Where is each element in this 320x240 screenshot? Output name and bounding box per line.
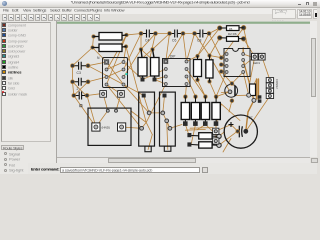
pad TP1 (247, 93, 251, 97)
wire U1 cross diagonals (107, 62, 124, 85)
wire (215, 125, 217, 142)
wire U3 left down (216, 72, 227, 97)
wire (107, 85, 122, 94)
wire thick U3 feed (242, 48, 244, 54)
red dot in solder mask swatch (2, 91, 4, 93)
wire under C7 (223, 139, 231, 153)
wire C2 right cross (74, 82, 88, 96)
wire C2 cross down (73, 82, 87, 96)
wire C4 left to R7 top (140, 34, 142, 50)
svg-text:DIP: DIP (170, 55, 175, 59)
wire (219, 131, 238, 145)
capacitor C3 (71, 62, 91, 75)
wire U1 to trimpot (107, 85, 142, 129)
wire (210, 56, 222, 58)
trimpot VR2 (160, 92, 176, 151)
wire (124, 85, 150, 113)
wire (107, 62, 124, 70)
wire (155, 77, 166, 80)
wire (96, 111, 108, 127)
capacitor C1 (72, 92, 89, 100)
wire R9 to row (198, 80, 206, 97)
connector D1 pads (252, 53, 266, 65)
window title bar (0, 0, 320, 8)
wire R7/R8 tops (141, 49, 150, 57)
toolbar (0, 14, 110, 21)
svg-text:LED1: LED1 (253, 61, 260, 65)
capacitor C8 (193, 30, 212, 43)
menu bar (0, 8, 320, 14)
window controls (298, 4, 302, 5)
wire (74, 96, 96, 128)
wire (167, 121, 168, 150)
wire R4 right down (107, 35, 127, 70)
wire R6b right down (244, 39, 255, 57)
wire R7 bottom to U2 (143, 69, 166, 80)
wire C8 left to U2 (187, 34, 195, 62)
pad TP2 (252, 98, 256, 102)
wire C1 to sq pads (87, 94, 100, 96)
wire C4 right to R7 (141, 34, 156, 50)
wire (88, 66, 124, 85)
resistor R18 vertical (250, 84, 262, 103)
resistor R5 (91, 44, 128, 52)
transistor Q1 (225, 82, 238, 103)
wire (205, 125, 212, 132)
wire trimpots to row (170, 125, 182, 129)
wire (124, 62, 143, 80)
wire long rat top to bottom (126, 47, 146, 123)
wire (221, 72, 232, 84)
wire (187, 56, 198, 62)
module VK3HND (80, 105, 131, 146)
capacitor C4 (139, 30, 158, 43)
resistor R16 horizontal (187, 133, 221, 139)
wire C3 right to U1 (88, 62, 107, 66)
wire (124, 49, 142, 77)
wire C6 left down (166, 34, 170, 62)
svg-text:N: N (97, 56, 100, 60)
wire hres right pads to C7 (219, 132, 225, 137)
wire C8 right down (198, 34, 210, 57)
wire (107, 35, 127, 85)
board edge strip (57, 22, 310, 24)
svg-text:D2 R6: D2 R6 (228, 32, 237, 36)
wire (250, 57, 255, 84)
resistor R9 vertical (194, 54, 202, 82)
svg-text:CONN2: CONN2 (275, 79, 279, 89)
wire Q1 to TP (236, 94, 249, 96)
wire U3 pads left (221, 65, 226, 66)
wire module to trimpot (122, 127, 142, 128)
resistor R17 horizontal (187, 142, 221, 148)
wire C2 right to U1 (88, 77, 107, 82)
wire U2 right to resistor row (185, 84, 186, 97)
wire (221, 28, 243, 58)
wire (197, 125, 205, 130)
wire (116, 94, 121, 111)
resistor row R11-R15 (181, 95, 220, 126)
wire (124, 85, 144, 96)
wire pad to C7 (246, 100, 254, 131)
wire (232, 72, 243, 84)
wire (183, 33, 195, 35)
top-right coordinate readout (272, 9, 296, 19)
capacitor C6 (168, 30, 186, 43)
wire extra links (156, 33, 170, 35)
wire (187, 69, 206, 97)
svg-text:(HND): (HND) (102, 125, 111, 129)
op-amp U1 (97, 56, 128, 88)
left panel (0, 21, 57, 174)
wire C4 left to U1 (124, 34, 142, 70)
wire U2 long to Q1 (210, 56, 231, 92)
svg-text:C3: C3 (77, 71, 81, 75)
horizontal scrollbar (57, 157, 310, 163)
wire (243, 60, 254, 100)
svg-text:C8: C8 (197, 39, 201, 43)
wire C3-C2-C1 left chain (73, 66, 74, 96)
wire (107, 70, 124, 78)
app icon (2, 1, 7, 6)
wire trimpot zigzag (131, 111, 152, 135)
wire module top pads up (103, 94, 108, 111)
wire (163, 96, 165, 113)
svg-text:C6: C6 (172, 39, 176, 43)
wire big diagonal to C7 (216, 104, 240, 125)
wire (229, 101, 232, 112)
wire R10 down (210, 82, 217, 97)
capacitor C2 (71, 78, 91, 91)
resistor R10 vertical (206, 54, 213, 84)
connector J2 (213, 128, 219, 144)
wire resistor row bottoms (185, 125, 189, 135)
trimpot VR1 (139, 92, 155, 152)
wire C4 right down (150, 34, 156, 58)
wire (167, 121, 170, 129)
wire (148, 135, 152, 150)
wire (187, 77, 196, 97)
wire C7 left pads (216, 125, 238, 132)
wire (243, 57, 255, 66)
svg-text:R6: R6 (229, 27, 233, 31)
svg-text:C4: C4 (145, 39, 149, 43)
connector CONN3 (266, 78, 279, 99)
wire C8 right to R6 (209, 28, 220, 34)
wire (163, 113, 170, 128)
wire (190, 127, 213, 130)
wire R8 bottom (155, 77, 166, 80)
wire R5 to C3 (73, 48, 93, 66)
wire R6b left down (210, 38, 220, 56)
svg-text:C7: C7 (249, 116, 253, 120)
vertical scrollbar (310, 21, 317, 157)
capacitor C7 electrolytic (224, 115, 257, 148)
wire (195, 34, 210, 56)
canvas (57, 21, 310, 157)
wire (142, 122, 147, 128)
resistor R6a top-right (217, 25, 246, 30)
wire (185, 128, 205, 131)
wire C6 right to U2 (166, 34, 183, 62)
resistor R6b (217, 32, 246, 41)
resistor R8 vertical (151, 48, 160, 82)
resistor R7 vertical (138, 48, 147, 82)
resistor R4 (92, 33, 129, 41)
wire (209, 34, 221, 58)
wire (149, 112, 163, 114)
wire (249, 79, 257, 95)
wire (183, 34, 187, 62)
right margin (317, 8, 320, 174)
wire conn3 thick (256, 79, 258, 99)
wire R6a right down (244, 28, 248, 49)
svg-text:2: 2 (77, 87, 79, 91)
wire R8 bottom to U2 pin (155, 80, 166, 85)
wire (146, 84, 166, 122)
wire R5 right down (124, 47, 127, 63)
wire (257, 79, 259, 99)
wire (127, 34, 142, 36)
wire C7 to conn3 (246, 96, 270, 131)
node cyan highlight (125, 73, 127, 75)
wire LED down (262, 57, 270, 80)
status bar (28, 163, 320, 174)
wire (191, 125, 195, 145)
wire U3 right to LED (243, 54, 251, 57)
wire Q1 pads (221, 91, 230, 94)
pads header left of U3 (219, 56, 223, 74)
wire (216, 92, 230, 97)
wire C1 to module (87, 96, 96, 128)
wire (144, 96, 149, 113)
op-amp U2 (163, 55, 191, 87)
jumper pads under U1 (100, 91, 124, 98)
wire C6 left to R8 (153, 34, 170, 50)
wire R4-R5 left (93, 37, 94, 48)
op-amp U3 with notch (224, 49, 250, 77)
wire TP cross (243, 72, 249, 95)
wire (215, 125, 217, 132)
route styles (1, 145, 24, 151)
wire R5 to U1 pin1 (93, 48, 107, 63)
